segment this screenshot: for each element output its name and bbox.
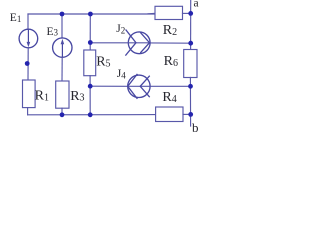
svg-text:R5: R5: [96, 55, 110, 70]
svg-text:R1: R1: [35, 89, 49, 104]
wire R2 lead right: [183, 12, 191, 14]
wire R3 to bottom rail: [61, 108, 63, 115]
node dot E1 branch: [25, 61, 30, 66]
resistor R6: [184, 50, 197, 78]
node dot mid bus J4: [88, 84, 93, 89]
wire J2 row: [90, 42, 128, 44]
wire middle bus upper: [89, 14, 91, 50]
wire E1 riser: [27, 14, 29, 29]
svg-text:b: b: [192, 120, 199, 134]
node dot mid bus J2: [88, 40, 93, 45]
wire R1 to bottom rail: [27, 108, 29, 115]
wire J4 row: [90, 85, 127, 87]
svg-text:R2: R2: [163, 23, 177, 38]
node dot right bus R4: [188, 112, 193, 117]
svg-text:R6: R6: [164, 54, 178, 69]
E1 arrow: [27, 30, 29, 42]
svg-text:E1: E1: [10, 12, 22, 24]
wire bottom rail: [28, 114, 156, 116]
wire E3 to R3: [61, 57, 63, 81]
voltage source E1: [19, 29, 38, 48]
resistor R2: [155, 6, 183, 19]
current source J4: [128, 75, 150, 97]
svg-text:J2: J2: [116, 23, 125, 35]
svg-text:E3: E3: [47, 26, 59, 38]
node dot right bus J4: [188, 84, 193, 89]
wire right bus lower: [189, 78, 191, 127]
resistor R4: [156, 107, 183, 122]
voltage source E3: [53, 38, 72, 57]
node dot bottom mid bus: [88, 112, 93, 117]
current source J2: [128, 32, 150, 54]
node dot top mid bus: [88, 12, 93, 17]
svg-text:J4: J4: [117, 68, 126, 80]
resistor R3: [56, 81, 69, 108]
svg-text:a: a: [194, 0, 199, 9]
resistor R1: [23, 80, 36, 108]
node dot top E3: [60, 12, 65, 17]
node dot right bus R2: [188, 11, 193, 16]
wire middle bus lower: [89, 76, 91, 115]
E3 arrow: [61, 44, 63, 57]
svg-text:R3: R3: [70, 89, 84, 104]
wire E1 to R1: [27, 48, 29, 80]
wire R4 lead right: [183, 113, 191, 115]
resistor R5: [84, 50, 96, 76]
wire top rail: [28, 13, 155, 15]
node dot right bus J2: [188, 41, 193, 46]
wire right bus: [190, 0, 192, 50]
wire R2 lead left: [148, 12, 155, 14]
node dot bottom R3: [60, 112, 65, 117]
wire E3 drop: [61, 14, 63, 38]
svg-text:R4: R4: [162, 90, 176, 105]
